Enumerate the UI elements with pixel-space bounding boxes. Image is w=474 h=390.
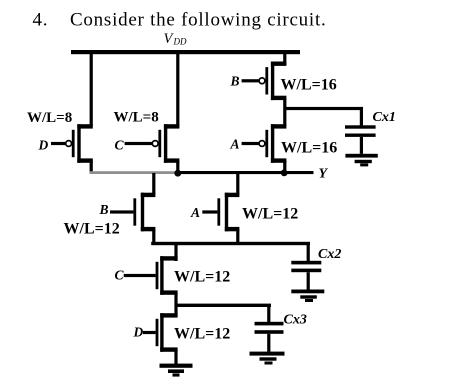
wire: VDD to PMOS D source [90, 52, 93, 126]
svg-text:W/L=12: W/L=12 [64, 221, 120, 238]
wire: VDD to PMOS B source [283, 52, 286, 65]
capacitor Cx2 [291, 261, 321, 290]
PMOS transistor B (W/L=16) [242, 62, 287, 101]
NMOS transistor B (W/L=12) [110, 193, 155, 232]
wire: NMOS C source to node N2 / NMOS D drain [174, 293, 177, 316]
wire: VDD to PMOS C source [176, 52, 179, 126]
junction dot (A drain at Y) [281, 169, 288, 176]
node Y horizontal wire (gray left segment) [90, 171, 178, 174]
wire: node N1 to capacitor Cx2 [307, 244, 310, 262]
capacitor Cx3 [255, 322, 284, 352]
wire: PMOS D drain to node Y [90, 161, 93, 173]
svg-text:D: D [133, 325, 144, 340]
VDD label [164, 31, 187, 47]
node N1 horizontal wire [151, 242, 310, 245]
svg-text:W/L=12: W/L=12 [242, 206, 298, 223]
svg-text:W/L=12: W/L=12 [174, 326, 230, 343]
svg-text:C: C [115, 138, 125, 153]
svg-text:DD: DD [173, 37, 187, 47]
svg-text:Cx2: Cx2 [318, 247, 341, 262]
wire: node Y to NMOS B drain [152, 173, 155, 194]
capacitor Cx1 [345, 125, 376, 154]
ground (under Cx3) [250, 352, 285, 365]
node Y horizontal wire (black right segment) [176, 171, 314, 174]
wire: node to capacitor Cx1 [284, 107, 363, 127]
svg-text:Consider the following circuit: Consider the following circuit. [70, 10, 326, 31]
svg-text:W/L=16: W/L=16 [281, 140, 337, 157]
PMOS transistor C (W/L=8) [125, 124, 180, 163]
svg-text:W/L=16: W/L=16 [281, 77, 337, 94]
wire: node N1 to NMOS C drain [174, 244, 177, 261]
wire: NMOS B source down to node N1 [152, 230, 155, 244]
wire: NMOS A source down to node N1 [236, 230, 239, 244]
wire: PMOS C drain to node Y [176, 161, 179, 173]
junction dot (C/D drain at Y) [174, 170, 181, 177]
ground (under Cx2) [291, 290, 324, 303]
svg-text:Y: Y [319, 167, 329, 182]
svg-text:A: A [190, 205, 200, 220]
svg-text:Cx1: Cx1 [373, 110, 396, 125]
ground (under NMOS D) [160, 364, 193, 377]
PMOS transistor A (W/L=16) [242, 124, 287, 163]
svg-text:B: B [99, 202, 109, 217]
VDD rail [71, 50, 300, 54]
svg-text:D: D [38, 138, 49, 153]
svg-text:W/L=8: W/L=8 [114, 110, 159, 126]
ground (under Cx1) [345, 154, 377, 167]
svg-text:Cx3: Cx3 [284, 313, 307, 328]
svg-text:C: C [115, 268, 125, 283]
wire: node Y to NMOS A drain [236, 173, 239, 194]
title text [33, 10, 327, 31]
svg-text:W/L=8: W/L=8 [27, 110, 72, 126]
svg-text:4.: 4. [33, 10, 49, 31]
wire: PMOS A drain to node Y [283, 161, 286, 173]
NMOS transistor A (W/L=12) [202, 193, 239, 232]
wire: NMOS D source to ground [174, 350, 177, 365]
NMOS transistor C (W/L=12) [124, 256, 178, 295]
node N2 horizontal wire [176, 304, 272, 307]
svg-text:A: A [230, 137, 240, 152]
svg-text:B: B [230, 74, 240, 89]
wire: node N2 to capacitor Cx3 [267, 306, 270, 323]
wire: PMOS B drain to PMOS A source [283, 98, 286, 126]
PMOS transistor D (W/L=8) [51, 124, 93, 163]
svg-text:W/L=12: W/L=12 [174, 269, 230, 286]
NMOS transistor D (W/L=12) [143, 313, 178, 352]
